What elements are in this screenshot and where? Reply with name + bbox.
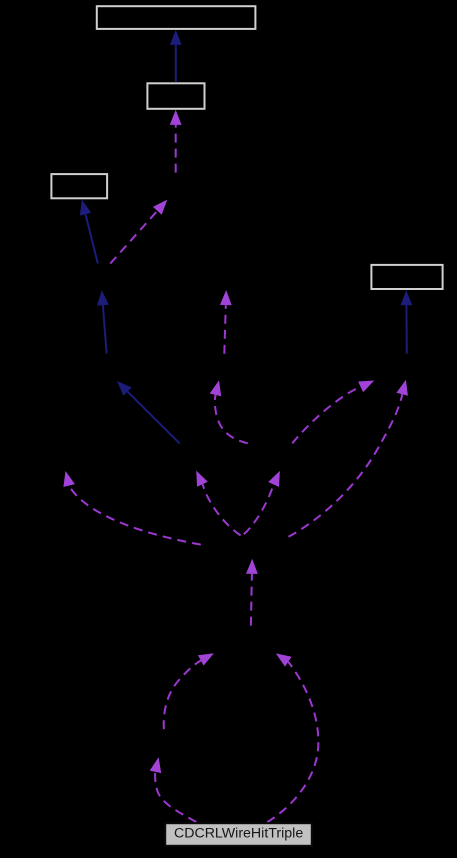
solid edge S3: nodeF -> nodeB (97, 290, 109, 353)
dashed edge D11: nodeJ -> nodeI (164, 653, 214, 729)
dashed edge D7: nodeH -> nodeE2 (244, 471, 280, 534)
dashed edge D13: CDCRLWireHitTriple -> nodeI (267, 653, 318, 822)
dashed edge D6: nodeH -> nodeE (196, 471, 240, 536)
dashed edge D1: nodeA -> box2 (170, 110, 182, 173)
dashed edge D5: nodeH -> nodeD (63, 471, 200, 545)
solid edge S1: box2 -> box1 (170, 30, 182, 82)
dashed edge D8: nodeE2 -> nodeG (292, 381, 374, 444)
dashed edge D9: nodeH -> nodeG (289, 380, 408, 537)
node box4 (right) (371, 265, 442, 289)
dashed edge D4: nodeE2 -> nodeF2 (210, 380, 248, 443)
node CDCRLWireHitTriple (current class, grey filled) (165, 823, 312, 846)
node box3 (51, 174, 107, 198)
dashed edge D3: nodeF2 -> nodeC (220, 290, 232, 354)
dashed edge D10: nodeI -> nodeH (246, 559, 258, 626)
solid edge S5: nodeG -> box4 (401, 290, 413, 354)
svg-text:CDCRLWireHitTriple: CDCRLWireHitTriple (174, 825, 303, 841)
node box2 (147, 83, 204, 109)
solid edge S4: nodeE -> nodeF (117, 381, 180, 444)
dashed edge D2: nodeB -> nodeA (110, 200, 167, 264)
dashed edge D12: CDCRLWireHitTriple -> nodeJ (150, 757, 197, 822)
solid edge S2: nodeB -> box3 (80, 200, 98, 264)
node box1 (top, undocumented class) (97, 6, 256, 29)
